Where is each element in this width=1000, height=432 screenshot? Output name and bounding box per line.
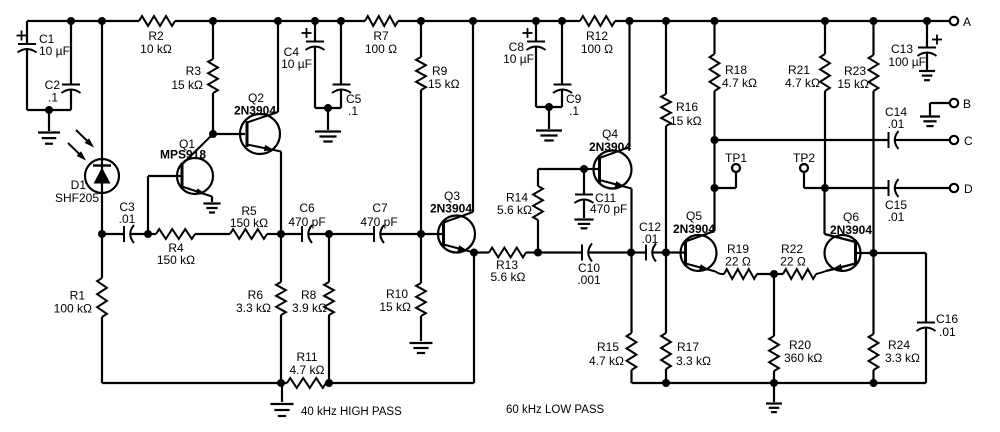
resistor R21 (785, 21, 830, 188)
svg-text:R3: R3 (186, 64, 202, 78)
junction C4/C5 ground node (324, 104, 332, 112)
wire to C14 (715, 139, 889, 141)
svg-text:150 kΩ: 150 kΩ (230, 216, 268, 230)
svg-text:10 µF: 10 µF (39, 44, 70, 58)
wire D1 branch (101, 21, 103, 234)
svg-text:360 kΩ: 360 kΩ (784, 351, 822, 365)
svg-text:3.3 kΩ: 3.3 kΩ (236, 301, 271, 315)
node Q6 collector / TP2 / C15 line (821, 184, 829, 192)
svg-text:3.3 kΩ: 3.3 kΩ (885, 351, 920, 365)
resistor R23 (837, 21, 878, 253)
svg-text:2N3904: 2N3904 (673, 222, 715, 236)
svg-text:R8: R8 (301, 288, 317, 302)
svg-text:2N3904: 2N3904 (589, 140, 631, 154)
transistor Q5 (673, 209, 717, 272)
resistor R2 (139, 16, 175, 56)
wire Q6 base (856, 252, 874, 254)
wire Q3 base (421, 233, 444, 235)
ground for C11 (575, 220, 594, 229)
wire Q4 base (584, 168, 600, 170)
node C12/R16/R17/Q5 base (662, 249, 670, 257)
terminal B (920, 97, 971, 126)
svg-text:2N3904: 2N3904 (234, 104, 276, 118)
svg-text:.01: .01 (939, 325, 956, 339)
svg-text:100 µF: 100 µF (888, 55, 926, 69)
wire top supply rail segment 3 (398, 20, 580, 22)
transistor Q3 (430, 189, 475, 253)
svg-text:Q4: Q4 (602, 127, 618, 141)
svg-text:A: A (963, 15, 971, 29)
ground for R10 (410, 343, 433, 353)
capacitor C6 (281, 201, 329, 243)
wire bottom rail right (632, 382, 927, 384)
svg-text:100 Ω: 100 Ω (365, 42, 397, 56)
svg-text:4.7 kΩ: 4.7 kΩ (290, 363, 325, 377)
svg-text:R10: R10 (386, 287, 408, 301)
svg-text:R20: R20 (789, 338, 811, 352)
node R13/R14/C10 (534, 249, 542, 257)
svg-text:.1: .1 (348, 104, 358, 118)
node Q1 base tap (144, 230, 152, 238)
resistor R13 (474, 248, 538, 284)
wire Q1 base riser (148, 176, 182, 234)
svg-text:60 kHz LOW PASS: 60 kHz LOW PASS (506, 404, 605, 416)
wire to C15 (825, 187, 889, 189)
svg-text:C6: C6 (299, 201, 315, 215)
svg-text:R21: R21 (788, 63, 810, 77)
wire top supply rail segment 1 (27, 20, 139, 22)
wire top supply rail segment 2 (175, 20, 365, 22)
svg-text:2N3904: 2N3904 (430, 202, 472, 216)
svg-text:15 kΩ: 15 kΩ (379, 300, 411, 314)
svg-text:TP1: TP1 (725, 151, 747, 165)
svg-text:R15: R15 (597, 340, 619, 354)
svg-text:.1: .1 (569, 104, 579, 118)
svg-text:.01: .01 (888, 210, 905, 224)
resistor R8 (292, 234, 334, 383)
photodiode D1 (55, 130, 119, 205)
transistor Q6 (816, 188, 872, 274)
capacitor C15 (885, 179, 950, 224)
test point TP2 (793, 151, 825, 188)
wire C1-C2 bottom (27, 109, 71, 111)
ground for C4/C5 (315, 108, 341, 142)
svg-text:C: C (964, 134, 973, 148)
wire top supply rail segment 4 (615, 20, 950, 22)
resistor R7 (365, 16, 398, 56)
capacitor C3 (119, 200, 148, 243)
node R6/ground (277, 379, 285, 387)
node Q5 collector / C14 line (711, 136, 719, 144)
node Q3 emitter (470, 249, 478, 257)
svg-text:.001: .001 (577, 273, 601, 287)
junction C1/C2 ground node (45, 106, 53, 114)
ground for C8/C9 (536, 107, 562, 141)
svg-text:SHF205: SHF205 (55, 191, 99, 205)
svg-text:10 µF: 10 µF (503, 52, 534, 66)
resistor R17 (661, 253, 711, 384)
capacitor C14 (885, 105, 950, 149)
junctions on top supply rail (67, 17, 931, 25)
svg-text:R6: R6 (248, 288, 264, 302)
resistor R20 (769, 274, 822, 383)
resistor R1 (54, 234, 107, 383)
resistor R16 (661, 21, 702, 253)
node Q3 base / R9 / R10 (417, 230, 425, 238)
svg-text:10 µF: 10 µF (281, 57, 312, 71)
node D1/R1/C3 (98, 230, 106, 238)
svg-text:.01: .01 (119, 212, 136, 226)
resistor R19 (724, 242, 774, 279)
node R19/R22/R20 (770, 270, 778, 278)
resistor R12 (580, 16, 615, 56)
svg-text:4.7 kΩ: 4.7 kΩ (722, 76, 757, 90)
wire Q5 emitter to R19 (716, 272, 725, 275)
svg-text:R17: R17 (677, 340, 699, 354)
resistor R24 (869, 253, 920, 383)
node Q6 base / R23 / R24 / C16 (870, 249, 878, 257)
test point TP1 (715, 151, 748, 188)
junction C8/C9 ground node (545, 103, 553, 111)
svg-text:5.6 kΩ: 5.6 kΩ (491, 270, 526, 284)
capacitor C1 (17, 21, 70, 110)
svg-text:150 kΩ: 150 kΩ (157, 253, 195, 267)
svg-text:R23: R23 (844, 64, 866, 78)
svg-text:R12: R12 (586, 29, 608, 43)
svg-text:TP2: TP2 (793, 151, 815, 165)
capacitor C8 (503, 21, 545, 107)
capacitor C9 (553, 21, 582, 118)
ground for C1/C2 (38, 110, 60, 144)
resistor R4 (148, 229, 230, 267)
capacitor C5 (332, 21, 362, 118)
resistor R18 (710, 21, 757, 140)
svg-text:C13: C13 (891, 42, 913, 56)
svg-text:R1: R1 (70, 289, 86, 303)
svg-text:15 kΩ: 15 kΩ (428, 77, 460, 91)
caption 60 kHz LOW PASS (506, 404, 605, 416)
svg-text:3.3 kΩ: 3.3 kΩ (676, 354, 711, 368)
resistor R6 (236, 234, 286, 383)
capacitor C16 (874, 253, 959, 383)
node R20/ground (770, 379, 778, 387)
svg-text:R2: R2 (148, 29, 164, 43)
wire Q2 collector (277, 21, 279, 112)
resistor R3 (171, 21, 218, 134)
svg-text:3.9 kΩ: 3.9 kΩ (292, 301, 327, 315)
wire to C3 (102, 233, 124, 235)
svg-text:4.7 kΩ: 4.7 kΩ (589, 354, 624, 368)
node R8/R11 (325, 379, 333, 387)
svg-text:Q6: Q6 (843, 210, 859, 224)
capacitor C10 (538, 244, 631, 288)
wire Q3 emitter to bottom rail (473, 253, 475, 384)
svg-text:R16: R16 (676, 100, 698, 114)
svg-text:40 kHz HIGH PASS: 40 kHz HIGH PASS (301, 406, 402, 418)
resistor R15 (589, 253, 636, 384)
ground for Q1 emitter (204, 197, 221, 213)
wire bottom rail left (102, 382, 287, 384)
svg-text:22 Ω: 22 Ω (780, 255, 806, 269)
svg-text:15 kΩ: 15 kΩ (171, 78, 203, 92)
svg-text:R18: R18 (725, 63, 747, 77)
svg-text:MPS918: MPS918 (160, 148, 206, 162)
svg-text:10 kΩ: 10 kΩ (140, 42, 172, 56)
svg-text:R7: R7 (373, 29, 389, 43)
svg-text:D: D (964, 182, 973, 196)
wire Q5 collector riser (713, 140, 715, 231)
wire Q2 emitter (280, 152, 282, 235)
terminal D (950, 182, 973, 196)
svg-text:15 kΩ: 15 kΩ (670, 114, 702, 128)
wire C4-C5 bottom (315, 107, 341, 109)
svg-text:100 Ω: 100 Ω (581, 42, 613, 56)
svg-text:C7: C7 (372, 201, 388, 215)
node Q4 base / R14 / C11 (580, 165, 588, 173)
node C6/C7/R8 (325, 230, 333, 238)
resistor R22 (774, 242, 816, 279)
resistor R11 (287, 350, 474, 388)
terminal A (950, 15, 971, 29)
transistor Q2 (234, 91, 281, 154)
capacitor C12 (631, 220, 666, 262)
svg-text:R9: R9 (432, 64, 448, 78)
transistor Q4 (589, 127, 632, 189)
svg-text:100 kΩ: 100 kΩ (54, 302, 92, 316)
terminal C (950, 134, 973, 148)
wire C8-C9 bottom (536, 106, 562, 108)
capacitor C11 (575, 169, 628, 218)
caption 40 kHz HIGH PASS (301, 406, 402, 418)
svg-text:C16: C16 (936, 312, 958, 326)
resistor R14 (497, 169, 584, 253)
ground for bottom rail right (766, 383, 782, 412)
svg-text:470 pF: 470 pF (360, 215, 397, 229)
capacitor C4 (281, 21, 324, 108)
svg-text:.01: .01 (642, 232, 659, 246)
wire Q4 collector (628, 21, 630, 147)
wire Q3 collector (472, 21, 474, 212)
resistor R5 (230, 204, 281, 239)
svg-text:D1: D1 (71, 178, 87, 192)
wire Q4 emitter (630, 189, 632, 253)
svg-text:.01: .01 (888, 117, 905, 131)
svg-text:R11: R11 (296, 350, 317, 364)
node R5/Q2 emitter/R6/C6 (277, 230, 285, 238)
ground for C13 (919, 71, 935, 80)
svg-text:2N3904: 2N3904 (830, 223, 872, 237)
ground for bottom rail left (271, 383, 294, 416)
svg-text:R24: R24 (888, 338, 910, 352)
svg-text:22 Ω: 22 Ω (725, 255, 751, 269)
resistor R9 (416, 21, 460, 234)
wire Q1 collector to Q2 base (213, 133, 245, 135)
capacitor C13 (888, 21, 942, 70)
svg-text:5.6 kΩ: 5.6 kΩ (497, 203, 532, 217)
svg-text:470 pF: 470 pF (288, 215, 325, 229)
node R24 bottom (870, 379, 878, 387)
capacitor C7 (329, 201, 421, 243)
svg-text:4.7 kΩ: 4.7 kΩ (785, 76, 820, 90)
resistor R10 (379, 234, 426, 341)
capacitor C2 (45, 21, 81, 110)
svg-text:B: B (963, 97, 971, 111)
node R17 bottom (662, 379, 670, 387)
node TP1 tap (711, 184, 719, 192)
node Q1 collector (209, 130, 217, 138)
svg-text:15 kΩ: 15 kΩ (837, 77, 869, 91)
wire Q5 base (666, 251, 685, 253)
transistor Q1 (160, 134, 213, 197)
svg-text:470 pF: 470 pF (590, 202, 627, 216)
svg-text:.1: .1 (48, 91, 58, 105)
node C10/C12/Q4 emitter/R15 (627, 249, 635, 257)
svg-text:Q5: Q5 (686, 209, 702, 223)
